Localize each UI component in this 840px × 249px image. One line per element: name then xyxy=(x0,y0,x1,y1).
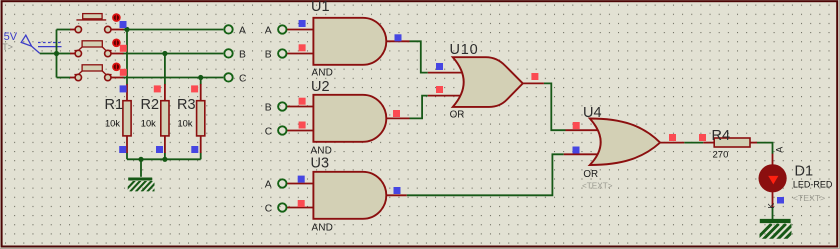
pin U3 inA xyxy=(287,183,314,185)
pin U1 inA xyxy=(287,29,314,31)
pin btn1 right xyxy=(112,29,124,31)
button SW1 base bar xyxy=(76,19,106,21)
AND gate U1 xyxy=(311,0,386,78)
svg-text:C: C xyxy=(239,73,247,84)
state U1 inA (blue) xyxy=(299,20,306,27)
state U4 in2 (blue) xyxy=(573,147,580,154)
pin R1 bottom xyxy=(126,136,128,153)
wire power to bus xyxy=(40,53,57,55)
svg-text:B: B xyxy=(265,49,272,60)
svg-text:A: A xyxy=(239,25,246,36)
state U10 out (red) xyxy=(531,73,538,80)
pin btn3 right xyxy=(112,77,124,79)
pin R4 right xyxy=(750,142,757,144)
red pin stubs xyxy=(70,30,773,208)
pin btn2 left xyxy=(70,53,75,55)
svg-text:<TEXT>: <TEXT> xyxy=(793,193,825,203)
wire R1 bottom xyxy=(126,153,128,160)
svg-text:U3: U3 xyxy=(311,156,330,172)
pin LED anode xyxy=(772,154,774,165)
node row C / R3 xyxy=(198,75,203,80)
svg-text:U2: U2 xyxy=(311,79,330,95)
wire R2 drop xyxy=(164,54,166,85)
button SW1 terminal left xyxy=(75,26,81,32)
state U2 inB (red) xyxy=(299,98,306,105)
button SW2 terminal right xyxy=(105,50,111,56)
pin U10 in1 xyxy=(428,72,462,74)
state R4 left (red) xyxy=(699,134,706,141)
pin LED cathode xyxy=(772,191,774,207)
svg-text:270: 270 xyxy=(713,150,729,161)
power handle dashed lines xyxy=(38,42,62,44)
state btn1 out (blue) xyxy=(120,21,127,28)
svg-text:U1: U1 xyxy=(311,0,330,15)
wire row A left stub xyxy=(57,29,71,31)
wire row C to terminal xyxy=(123,77,224,79)
AND gate U2 xyxy=(311,79,387,157)
junction dots xyxy=(54,27,203,162)
svg-text:U10: U10 xyxy=(450,42,479,58)
state btn2 out (red) xyxy=(120,45,127,52)
svg-text:OR: OR xyxy=(583,169,598,180)
wire ground bus xyxy=(127,158,201,160)
button SW2 actuator xyxy=(113,39,120,46)
pin U1 inB xyxy=(287,53,314,55)
button SW2 terminal left xyxy=(75,50,81,56)
button SW3 cap xyxy=(82,65,102,71)
wire U2 out to U10 in2 xyxy=(410,96,428,119)
pin U2 out xyxy=(386,117,409,119)
state U4 out (red) xyxy=(669,134,676,141)
gate input terminal B (U1) xyxy=(265,49,287,60)
node power junction xyxy=(54,51,59,56)
node row B / R2 xyxy=(162,51,167,56)
pin U10 out xyxy=(523,82,544,84)
pin U4 in2 xyxy=(564,153,599,155)
wire U1 out to U10 in1 xyxy=(410,41,428,72)
state U1 inB (red) xyxy=(299,44,306,51)
resistor R3 xyxy=(177,97,205,136)
pin R3 top xyxy=(200,84,202,101)
svg-text:U4: U4 xyxy=(583,105,602,121)
button SW1 actuator xyxy=(113,14,120,21)
pin R3 bottom xyxy=(200,136,202,153)
resistor R1 xyxy=(105,97,132,136)
gate input terminal C (U2) xyxy=(265,126,287,137)
node ground bus / stub xyxy=(138,157,143,162)
gate input terminal B (U2) xyxy=(265,102,287,113)
pin U2 inC xyxy=(287,130,314,132)
svg-text:R3: R3 xyxy=(177,97,196,113)
state R1 top (blue) xyxy=(120,85,127,92)
node row A / R1 xyxy=(124,27,129,32)
pin U3 out xyxy=(386,194,406,196)
state btn3 out (red) xyxy=(120,69,127,76)
wire left vertical bus xyxy=(56,30,58,78)
push button SW3 (closed) xyxy=(74,65,111,81)
state U3 inC (red) xyxy=(298,200,305,207)
svg-text:C: C xyxy=(265,203,273,214)
svg-text:A: A xyxy=(774,147,784,153)
OR gate U10 xyxy=(450,42,523,120)
svg-text:10k: 10k xyxy=(178,118,193,128)
state U4 in1 (red) xyxy=(573,122,580,129)
pin btn2 right xyxy=(112,53,124,55)
button SW1 cap xyxy=(83,14,102,19)
pin R4 left xyxy=(703,142,714,144)
gate input terminal A (U1) xyxy=(265,25,287,36)
state LED cathode (blue) xyxy=(777,197,784,204)
state R3 top (red) xyxy=(191,85,198,92)
ground (left) xyxy=(124,179,164,192)
button SW2 base link xyxy=(74,47,111,51)
button SW1 terminal right xyxy=(105,26,111,32)
svg-text:T>: T> xyxy=(2,42,13,52)
svg-text:C: C xyxy=(265,126,273,137)
terminal A xyxy=(224,25,246,36)
wire R3 drop xyxy=(200,78,202,85)
pin R2 top xyxy=(164,84,166,101)
svg-text:10k: 10k xyxy=(105,118,120,128)
gate input terminal A (U3) xyxy=(265,179,287,190)
wires (green) xyxy=(40,30,773,220)
wire row B to terminal xyxy=(123,53,224,55)
svg-text:AND: AND xyxy=(312,67,334,78)
svg-text:AND: AND xyxy=(312,222,334,233)
state U10 in2 (red) xyxy=(436,86,443,93)
svg-text:A: A xyxy=(265,179,272,190)
state U1 out (blue) xyxy=(395,34,402,41)
AND gate U3 xyxy=(311,156,387,234)
state R3 bottom (blue) xyxy=(191,146,198,153)
wire U3 out to U4 in2 xyxy=(407,154,564,195)
wire R1 drop xyxy=(126,30,128,85)
resistor R2 xyxy=(141,97,170,136)
wire ground stub xyxy=(140,159,142,177)
svg-text:B: B xyxy=(265,102,272,113)
svg-text:5V: 5V xyxy=(4,31,18,43)
state R2 top (red) xyxy=(154,85,161,92)
pin U3 inC xyxy=(287,207,314,209)
gate input terminal C (U3) xyxy=(265,203,287,214)
pin R1 top xyxy=(126,84,128,101)
wire row B left stub xyxy=(57,53,71,55)
state U3 out (blue) xyxy=(394,187,401,194)
power arrow symbol xyxy=(21,35,40,53)
resistor R4 xyxy=(712,128,751,161)
svg-text:A: A xyxy=(265,25,272,36)
logic state squares xyxy=(119,20,784,207)
button SW3 terminal right xyxy=(105,74,111,80)
node ground bus / R2 xyxy=(162,157,167,162)
wire LED to ground xyxy=(772,207,774,220)
pin R2 bottom xyxy=(164,136,166,153)
svg-text:R4: R4 xyxy=(712,128,731,144)
pin U1 out xyxy=(386,40,409,42)
wire U4 out to R4 xyxy=(684,142,703,144)
terminal C xyxy=(224,73,247,84)
state U2 inC (red) xyxy=(299,122,306,129)
pin U10 in2 xyxy=(428,95,462,97)
state R1 bottom (blue) xyxy=(119,146,126,153)
ground (right) xyxy=(755,221,801,241)
state U10 in1 (blue) xyxy=(436,63,443,70)
state U3 inA (blue) xyxy=(298,176,305,183)
svg-text:LED-RED: LED-RED xyxy=(793,180,833,190)
svg-text:K: K xyxy=(766,203,776,209)
button SW3 terminal left xyxy=(75,74,81,80)
pin U4 in1 xyxy=(566,129,600,131)
pin U4 out xyxy=(660,142,684,144)
wire row A to terminal xyxy=(123,29,224,31)
wire row C left stub xyxy=(57,77,71,79)
state U2 out (red) xyxy=(393,110,400,117)
button SW3 base link xyxy=(74,71,111,75)
svg-text:R2: R2 xyxy=(141,97,160,113)
wire U10 out to U4 in1 xyxy=(544,83,566,130)
svg-text:10k: 10k xyxy=(141,118,156,128)
pin btn1 left xyxy=(70,29,75,31)
wire R2 bottom xyxy=(164,153,166,160)
svg-text:D1: D1 xyxy=(795,163,814,179)
pin btn3 left xyxy=(70,77,75,79)
svg-text:R1: R1 xyxy=(105,97,124,113)
wire R3 bottom xyxy=(200,153,202,160)
OR gate U4 xyxy=(582,105,660,190)
svg-text:B: B xyxy=(239,49,246,60)
state R2 bottom (blue) xyxy=(156,146,163,153)
svg-text:<TEXT>: <TEXT> xyxy=(582,181,613,190)
LED D1 xyxy=(759,147,833,209)
power terminal 5V xyxy=(2,31,61,54)
button SW3 actuator xyxy=(113,63,120,70)
pin U2 inB xyxy=(287,106,314,108)
terminal B xyxy=(224,49,246,60)
button SW2 cap xyxy=(82,41,102,47)
wire R4 to LED xyxy=(757,143,773,154)
push button SW2 (closed) xyxy=(74,41,111,57)
svg-text:OR: OR xyxy=(450,109,465,120)
push button SW1 (open) xyxy=(75,14,111,33)
